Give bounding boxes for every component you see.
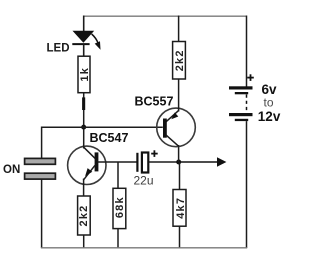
resistor R4 2k2 bbox=[173, 42, 187, 80]
wire 68k drop bbox=[117, 162, 119, 189]
svg-text:2k2: 2k2 bbox=[174, 49, 186, 71]
svg-text:2k2: 2k2 bbox=[78, 205, 90, 227]
wire node A row to Q2 base bbox=[41, 126, 163, 128]
wire top rail to R4 bbox=[178, 16, 180, 43]
svg-text:12v: 12v bbox=[258, 109, 281, 124]
svg-text:68k: 68k bbox=[114, 196, 126, 218]
wire LED anode bbox=[83, 16, 85, 33]
resistor R3 68k bbox=[113, 188, 126, 228]
wire R1 to node A bbox=[82, 93, 85, 127]
svg-text:LED: LED bbox=[47, 42, 70, 54]
transistor Q2 BC557 bbox=[157, 108, 196, 147]
wire R2 to bottom rail bbox=[83, 235, 85, 248]
svg-text:ON: ON bbox=[3, 164, 20, 176]
LED D1 bbox=[72, 31, 100, 50]
resistor R2 2k2 bbox=[78, 196, 91, 235]
svg-text:22u: 22u bbox=[134, 173, 154, 187]
wire switch to bottom rail bbox=[41, 180, 43, 249]
wire bottom rail bbox=[41, 247, 247, 249]
wire Q2 collector to node B bbox=[178, 145, 180, 162]
wire battery to bottom rail bbox=[246, 121, 248, 248]
svg-text:BC557: BC557 bbox=[135, 95, 174, 109]
wire Q1 base row bbox=[98, 161, 137, 163]
wire R5 to bottom rail bbox=[179, 226, 181, 248]
wire C1 to node B bbox=[149, 161, 179, 163]
svg-text:4k7: 4k7 bbox=[175, 197, 187, 219]
wire top rail bbox=[83, 15, 246, 17]
resistor R1 1k bbox=[78, 56, 91, 92]
capacitor C1 22u bbox=[137, 150, 157, 172]
svg-text:to: to bbox=[264, 96, 274, 110]
wire node B to R5 bbox=[179, 162, 181, 190]
output arrow bbox=[179, 157, 227, 167]
wire node A to switch bbox=[41, 127, 43, 159]
svg-text:1k: 1k bbox=[79, 67, 91, 82]
battery B1 bbox=[229, 74, 254, 121]
wire top rail to battery bbox=[246, 16, 248, 87]
svg-text:BC547: BC547 bbox=[90, 131, 129, 145]
wire R3 to bottom rail bbox=[117, 229, 119, 248]
wire LED cathode to R1 bbox=[83, 44, 85, 57]
transistor Q1 BC547 bbox=[68, 129, 106, 197]
node A junction bbox=[81, 125, 86, 130]
switch ON bbox=[25, 158, 56, 179]
node B junction bbox=[176, 160, 181, 165]
resistor R5 4k7 bbox=[173, 190, 187, 227]
wire R4 to Q2 emitter bbox=[178, 79, 180, 109]
